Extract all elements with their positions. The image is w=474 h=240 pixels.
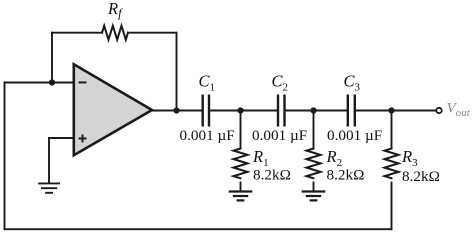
node 1 junction — [237, 107, 243, 113]
svg-text:0.001 µF: 0.001 µF — [252, 127, 307, 144]
wire: inverting-input vertical from Rf loop down to node — [51, 33, 53, 83]
op-amp U1 triangle — [74, 64, 152, 155]
resistor Rf zigzag — [102, 26, 128, 40]
wire: node 1 to C2 — [241, 110, 277, 112]
wire: node 2 down to R2 — [313, 111, 315, 149]
wire: R1 to ground — [240, 183, 242, 191]
resistor R2 zigzag — [307, 149, 321, 179]
resistor R1 zigzag — [234, 149, 248, 179]
wire: non-inverting input horizontal — [49, 137, 73, 139]
svg-text:C3: C3 — [344, 72, 361, 94]
wire: C1 to node 1 — [210, 110, 240, 112]
node 2 junction — [310, 107, 316, 113]
wire: non-inverting input down to ground — [48, 138, 50, 183]
wire: R2 to ground — [313, 183, 315, 191]
svg-text:Rf: Rf — [107, 0, 123, 20]
svg-text:C1: C1 — [199, 72, 216, 94]
wire: Rf top left segment — [52, 32, 102, 34]
wire: Rf right vertical down to output node — [176, 33, 178, 111]
svg-text:8.2kΩ: 8.2kΩ — [402, 168, 440, 185]
wire: bottom feedback horizontal — [5, 228, 392, 230]
wire: node 1 down to R1 — [240, 111, 242, 149]
svg-text:C2: C2 — [272, 72, 289, 94]
wire: node 3 to Vout terminal — [392, 110, 436, 112]
wire: C2 to node 2 — [286, 110, 314, 112]
node 3 junction — [388, 107, 394, 113]
capacitor C1 plates — [203, 95, 209, 127]
svg-text:Vout: Vout — [447, 101, 471, 120]
ground (op-amp non-inverting input) — [38, 183, 60, 192]
wire: inverting input horizontal — [5, 82, 74, 84]
ground (R1) — [229, 192, 253, 201]
op-amp non-inverting pin plus sign — [79, 135, 87, 143]
wire: left feedback vertical — [4, 83, 6, 230]
wire: node 2 to C3 — [314, 110, 347, 112]
node: op-amp output junction — [173, 107, 179, 113]
wire: feedback rise to R3 bottom — [391, 183, 393, 230]
ground (R2) — [302, 192, 326, 201]
terminal Vout open circle — [436, 108, 441, 113]
wire: op-amp output to node — [152, 110, 177, 112]
resistor R3 zigzag — [385, 149, 399, 179]
capacitor C3 plates — [348, 95, 355, 127]
wire: output node to C1 — [177, 110, 202, 112]
svg-text:0.001 µF: 0.001 µF — [327, 127, 382, 144]
node: inverting input junction — [49, 79, 55, 85]
svg-text:8.2kΩ: 8.2kΩ — [327, 167, 365, 184]
wire: Rf top right segment — [128, 32, 177, 34]
svg-text:R3: R3 — [401, 147, 418, 169]
capacitor C2 plates — [278, 95, 285, 127]
svg-text:8.2kΩ: 8.2kΩ — [253, 167, 291, 184]
wire: node 3 down to R3 — [391, 111, 393, 149]
op-amp inverting pin minus sign — [79, 82, 87, 84]
wire: C3 to node 3 — [356, 110, 392, 112]
svg-text:0.001 µF: 0.001 µF — [180, 127, 235, 144]
